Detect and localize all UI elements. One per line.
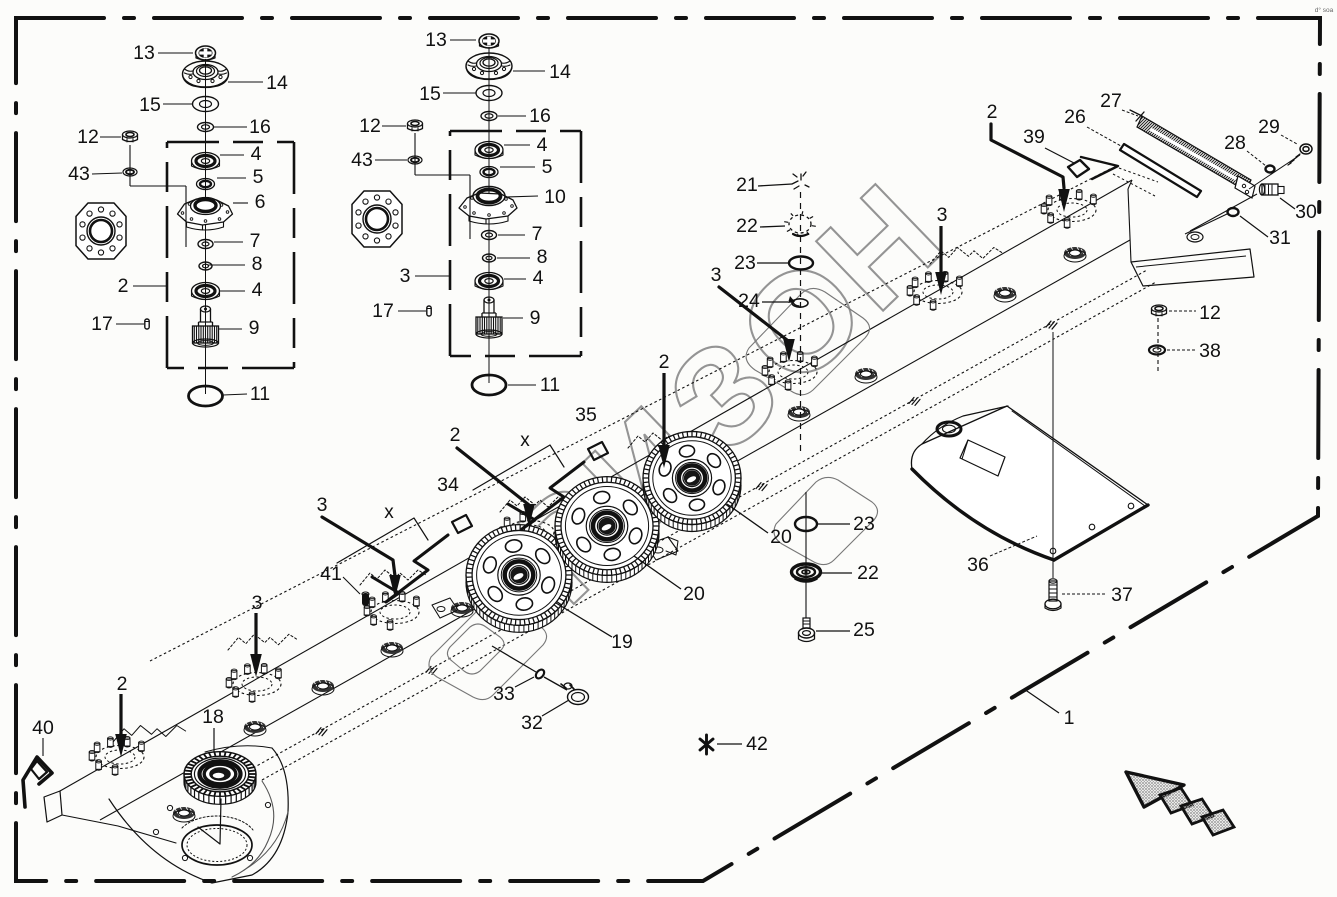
hatched seat 7 [994, 287, 1016, 299]
nut 12 right [1152, 305, 1167, 312]
spring clip 35 [473, 445, 564, 490]
weld tick marks [316, 728, 327, 736]
ring 38 [1149, 346, 1165, 355]
direction arrow [1126, 772, 1184, 807]
burst washer 22 [789, 215, 811, 233]
svg-text:16: 16 [249, 116, 271, 138]
svg-text:39: 39 [1023, 126, 1045, 148]
cover centerline [1052, 332, 1054, 578]
leader 30-bar [1190, 194, 1257, 231]
svg-text:21: 21 [736, 174, 758, 196]
svg-text:17: 17 [372, 300, 394, 322]
svg-text:9: 9 [530, 307, 541, 329]
ring 28 [1266, 166, 1275, 173]
svg-text:34: 34 [437, 474, 459, 496]
hatched seat 8 [1064, 247, 1086, 259]
svg-text:26: 26 [1064, 106, 1086, 128]
hatched seat 6 [855, 368, 877, 380]
assembly B flange [352, 191, 402, 247]
svg-text:37: 37 [1111, 584, 1133, 606]
left end cap [44, 791, 62, 822]
hub pos 3 right [769, 361, 817, 384]
svg-text:14: 14 [266, 72, 288, 94]
ring 23 lower [795, 517, 817, 531]
svg-text:28: 28 [1224, 132, 1246, 154]
svg-text:35: 35 [575, 404, 597, 426]
svg-text:30: 30 [1295, 201, 1317, 223]
svg-text:29: 29 [1258, 116, 1280, 138]
svg-text:5: 5 [542, 156, 553, 178]
svg-text:17: 17 [91, 313, 113, 335]
bracket profile 4 [500, 497, 566, 512]
svg-text:d° soa: d° soa [1315, 6, 1334, 14]
svg-text:5: 5 [253, 166, 264, 188]
hatched seat 4 [451, 602, 473, 614]
chevron dotted edges [1119, 168, 1158, 182]
svg-text:4: 4 [533, 267, 544, 289]
sparkle 21 [793, 172, 809, 189]
svg-text:3: 3 [252, 592, 263, 614]
hub pos 2 far [1048, 199, 1096, 222]
svg-text:18: 18 [202, 706, 224, 728]
plug 30 [1262, 184, 1278, 195]
svg-text:12: 12 [1199, 302, 1221, 324]
svg-text:31: 31 [1269, 227, 1291, 249]
spring clip 34 [337, 518, 428, 563]
assembly B 12-43 leader [414, 133, 416, 175]
svg-text:3: 3 [400, 265, 411, 287]
centerline 21-24 [800, 192, 802, 452]
leader 31-bar [1185, 214, 1227, 234]
svg-text:33: 33 [493, 683, 515, 705]
hub pos 3 mid [371, 601, 419, 624]
svg-text:2: 2 [987, 101, 998, 123]
assembly A ring 43 [123, 168, 137, 176]
assembly A 12-43 leader [129, 145, 131, 186]
svg-text:40: 40 [32, 717, 54, 739]
svg-text:4: 4 [252, 279, 263, 301]
svg-text:13: 13 [425, 29, 447, 51]
bracket profile 1 [113, 725, 186, 742]
cover plate 36 [911, 406, 1148, 560]
svg-text:16: 16 [529, 105, 551, 127]
axis 29-28 [1249, 155, 1300, 189]
svg-text:12: 12 [77, 126, 99, 148]
hook 40 [23, 757, 52, 807]
ring 33 [534, 668, 546, 680]
star 42 [700, 735, 713, 754]
ring 31 [1228, 208, 1239, 216]
assembly B ring 43 [408, 156, 422, 164]
svg-text:2: 2 [118, 275, 129, 297]
svg-text:2: 2 [117, 673, 128, 695]
svg-text:9: 9 [249, 317, 260, 339]
centerline 22-25 [805, 492, 807, 622]
svg-text:4: 4 [537, 134, 548, 156]
svg-text:6: 6 [255, 191, 266, 213]
assembly A nut 12 [123, 131, 138, 138]
pivot lug b [646, 537, 678, 560]
centerline 12-38 [1157, 318, 1159, 372]
svg-text:27: 27 [1100, 90, 1122, 112]
svg-text:24: 24 [738, 290, 760, 312]
svg-text:22: 22 [857, 562, 879, 584]
hatched seat 2 [312, 680, 334, 692]
bolt 37 [1049, 581, 1057, 601]
svg-text:41: 41 [320, 563, 342, 585]
skid plate 27 [1137, 116, 1251, 191]
pin 41 [362, 593, 369, 606]
hub pos 2 left [96, 746, 144, 769]
bolt 32 [568, 690, 589, 705]
gear 20 right [643, 438, 741, 531]
svg-text:32: 32 [521, 712, 543, 734]
bracket profile 5 [628, 433, 694, 448]
ring 24 [792, 299, 808, 307]
strip 26 [1120, 144, 1201, 197]
svg-text:7: 7 [250, 230, 261, 252]
svg-text:14: 14 [549, 61, 571, 83]
svg-text:43: 43 [68, 163, 90, 185]
assembly A flange [76, 203, 126, 259]
svg-text:3: 3 [711, 264, 722, 286]
svg-text:23: 23 [853, 513, 875, 535]
right end plate [1131, 249, 1254, 286]
hatched seat 3 [381, 642, 403, 654]
hatched seat 5 [788, 406, 810, 418]
cutter bar long edges [150, 169, 1110, 661]
svg-text:4: 4 [251, 143, 262, 165]
plain oval hole [1187, 232, 1203, 242]
assembly B pin 17 [427, 306, 431, 316]
svg-text:11: 11 [250, 383, 270, 405]
svg-text:x: x [384, 502, 394, 523]
svg-text:2: 2 [450, 424, 461, 446]
bolt 25 [803, 618, 810, 628]
svg-text:22: 22 [736, 215, 758, 237]
stamped recesses [429, 600, 547, 699]
assembly B nut 12 [408, 120, 423, 127]
svg-text:8: 8 [537, 246, 548, 268]
svg-text:20: 20 [770, 526, 792, 548]
gear 20 mid [555, 484, 659, 583]
bracket profile 3 [360, 570, 426, 585]
ring 23 upper [789, 257, 813, 270]
bolt 29 [1300, 144, 1312, 154]
svg-text:38: 38 [1199, 340, 1221, 362]
bracket profile 6 [930, 248, 1003, 265]
svg-text:2: 2 [659, 351, 670, 373]
end plate disc seat [182, 825, 252, 865]
svg-text:42: 42 [746, 733, 768, 755]
svg-text:1: 1 [1064, 707, 1075, 729]
svg-text:10: 10 [544, 186, 566, 208]
svg-text:13: 13 [133, 42, 155, 64]
svg-text:23: 23 [734, 252, 756, 274]
svg-text:36: 36 [967, 554, 989, 576]
assembly A stack [205, 59, 207, 394]
svg-text:19: 19 [611, 631, 633, 653]
assembly B bracket 3 [450, 130, 581, 133]
hub pos 2 mid [506, 521, 554, 544]
hatched seat 9 [173, 807, 195, 819]
hatched seat 1 [244, 721, 266, 733]
watermark text [479, 155, 970, 631]
svg-text:25: 25 [853, 619, 875, 641]
gear 18 [184, 760, 256, 805]
hub pos 3 far [914, 281, 962, 304]
cup 22 lower [792, 564, 821, 580]
svg-text:43: 43 [351, 149, 373, 171]
svg-text:3: 3 [317, 494, 328, 516]
pivot lug a [432, 598, 458, 618]
leader 32-33 [492, 646, 536, 672]
svg-text:8: 8 [252, 253, 263, 275]
svg-text:3: 3 [937, 204, 948, 226]
svg-text:12: 12 [359, 115, 381, 137]
svg-text:15: 15 [419, 83, 441, 105]
assembly B stack [488, 47, 490, 383]
svg-text:15: 15 [139, 94, 161, 116]
assembly A pin 17 [145, 319, 149, 329]
assembly A bracket 2 [167, 141, 294, 144]
bracket profile 2 [228, 634, 297, 650]
chevron 39 [1081, 157, 1118, 179]
svg-text:20: 20 [683, 583, 705, 605]
svg-text:11: 11 [540, 374, 560, 396]
svg-text:x: x [520, 430, 530, 451]
svg-text:7: 7 [532, 223, 543, 245]
hub pos 3 left [233, 673, 281, 696]
gear 19 [466, 532, 572, 633]
